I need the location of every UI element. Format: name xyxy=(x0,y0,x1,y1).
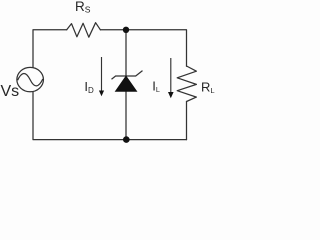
current arrow IL (load current) xyxy=(170,58,172,94)
resistor RS (series resistor zigzag) xyxy=(67,23,101,38)
voltage source Vs (AC source circle) xyxy=(17,67,44,91)
svg-text:RL: RL xyxy=(201,79,215,95)
wire: R_L bottom to bottom-right corner xyxy=(186,102,188,140)
node bottom junction dot xyxy=(123,136,130,143)
node top junction dot xyxy=(123,27,129,33)
wire: top node to top-right corner and down to R_L xyxy=(126,30,187,67)
voltage source sine wave xyxy=(18,73,43,85)
svg-text:ID: ID xyxy=(84,79,94,95)
svg-text:RS: RS xyxy=(75,0,91,15)
wire: source top to R_S (left vertical + top-left horizontal) xyxy=(33,30,67,67)
wire: zener anode to bottom node xyxy=(125,91,127,139)
current arrow ID (zener current) xyxy=(101,57,103,93)
resistor RL (load resistor zigzag) xyxy=(177,66,196,102)
wire: top node down to zener cathode xyxy=(125,30,127,76)
svg-text:IL: IL xyxy=(152,78,160,94)
wire: R_S to top node xyxy=(100,29,126,31)
zener diode D cathode bar with bent ends xyxy=(112,71,143,80)
svg-text:Vs: Vs xyxy=(1,83,20,100)
wire: bottom rail xyxy=(33,92,187,140)
zener diode D anode triangle xyxy=(116,76,137,91)
